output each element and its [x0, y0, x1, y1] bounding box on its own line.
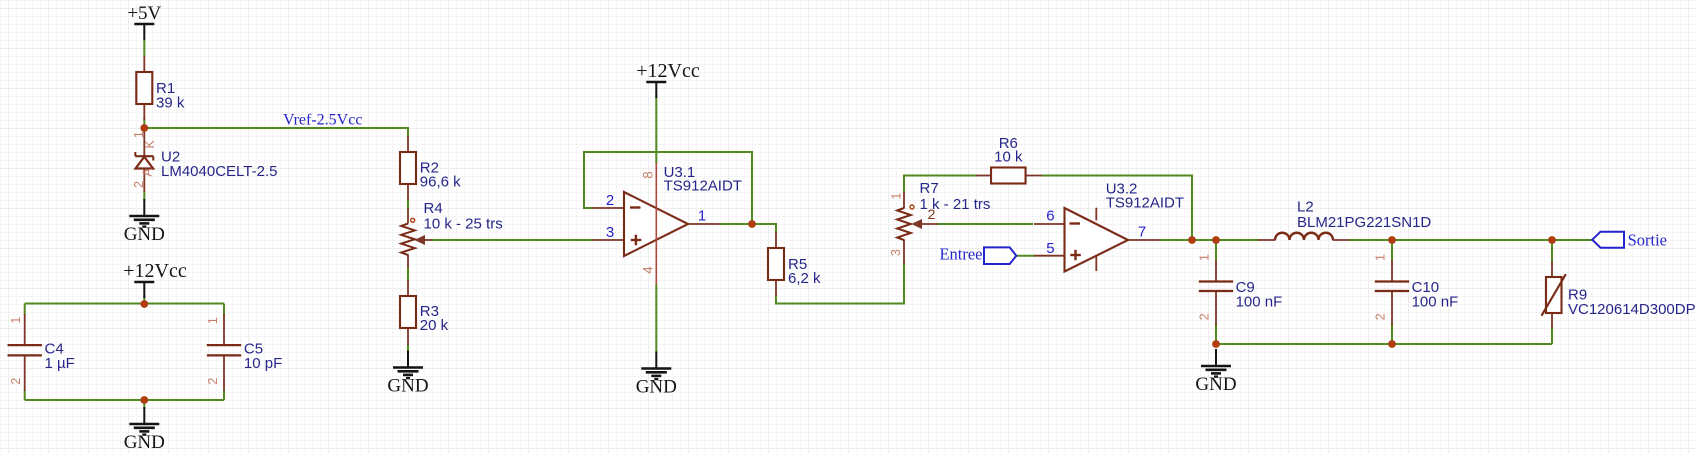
svg-text:1: 1	[889, 193, 903, 200]
svg-text:2: 2	[1373, 313, 1387, 320]
svg-text:1: 1	[1373, 254, 1387, 261]
svg-text:2: 2	[132, 181, 146, 188]
svg-text:A: A	[141, 167, 155, 176]
svg-text:GND: GND	[124, 432, 165, 453]
svg-text:1 µF: 1 µF	[45, 355, 75, 372]
svg-text:+12Vcc: +12Vcc	[123, 260, 187, 282]
svg-text:10 k: 10 k	[994, 149, 1023, 166]
svg-text:Vref-2.5Vcc: Vref-2.5Vcc	[283, 112, 362, 129]
svg-text:4: 4	[640, 266, 655, 274]
svg-text:5: 5	[1046, 240, 1054, 257]
svg-text:1: 1	[698, 208, 706, 225]
svg-text:3: 3	[889, 249, 903, 256]
svg-text:100 nF: 100 nF	[1236, 294, 1283, 311]
svg-text:LM4040CELT-2.5: LM4040CELT-2.5	[161, 163, 277, 180]
svg-text:K: K	[143, 139, 157, 148]
svg-text:2: 2	[206, 378, 220, 385]
svg-text:L2: L2	[1297, 199, 1314, 216]
svg-text:2: 2	[9, 378, 23, 385]
svg-text:39 k: 39 k	[156, 95, 185, 112]
svg-text:2: 2	[1197, 313, 1211, 320]
svg-text:Entree: Entree	[939, 245, 982, 264]
svg-text:6,2 k: 6,2 k	[788, 270, 821, 287]
svg-text:1: 1	[9, 317, 23, 324]
svg-text:6: 6	[1046, 208, 1054, 225]
svg-text:2: 2	[606, 192, 614, 209]
svg-text:GND: GND	[636, 377, 677, 398]
svg-text:GND: GND	[387, 376, 428, 397]
svg-text:1: 1	[1197, 254, 1211, 261]
svg-text:1: 1	[206, 317, 220, 324]
svg-text:96,6 k: 96,6 k	[420, 174, 461, 191]
svg-text:10 pF: 10 pF	[244, 355, 282, 372]
svg-text:100 nF: 100 nF	[1412, 294, 1459, 311]
svg-text:TS912AIDT: TS912AIDT	[664, 178, 742, 195]
svg-text:+12Vcc: +12Vcc	[636, 60, 700, 82]
svg-text:BLM21PG221SN1D: BLM21PG221SN1D	[1297, 214, 1431, 231]
svg-text:VC120614D300DP: VC120614D300DP	[1568, 301, 1696, 318]
svg-text:+5V: +5V	[127, 3, 161, 24]
svg-text:Sortie: Sortie	[1628, 231, 1667, 250]
svg-text:10 k - 25 trs: 10 k - 25 trs	[424, 216, 503, 233]
svg-text:20 k: 20 k	[420, 317, 449, 334]
svg-text:7: 7	[1138, 224, 1146, 241]
svg-text:2: 2	[928, 206, 936, 222]
svg-text:8: 8	[640, 171, 655, 179]
svg-text:1: 1	[132, 131, 146, 138]
svg-text:GND: GND	[124, 224, 165, 245]
svg-text:GND: GND	[1195, 374, 1236, 395]
svg-text:TS912AIDT: TS912AIDT	[1106, 195, 1184, 212]
svg-text:3: 3	[606, 224, 614, 241]
svg-text:R4: R4	[424, 200, 443, 217]
svg-text:R7: R7	[920, 180, 939, 197]
